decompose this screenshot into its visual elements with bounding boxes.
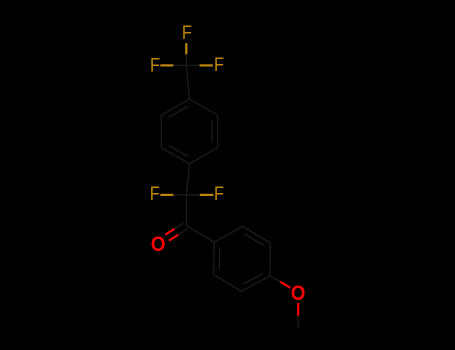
svg-text:F: F <box>182 22 192 44</box>
svg-text:F: F <box>150 55 160 77</box>
svg-text:F: F <box>214 183 224 205</box>
svg-text:O: O <box>151 232 166 256</box>
svg-text:F: F <box>214 54 224 76</box>
svg-text:F: F <box>150 183 160 205</box>
svg-text:O: O <box>291 281 306 305</box>
